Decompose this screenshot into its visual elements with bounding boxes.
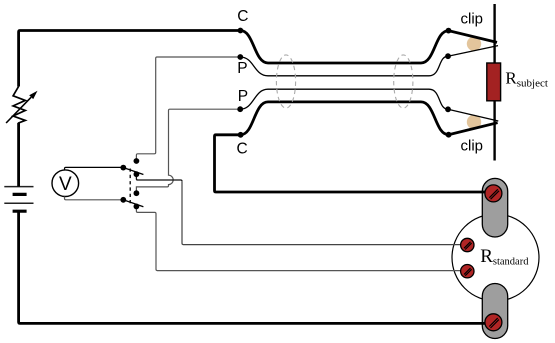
svg-text:clip: clip [461, 138, 484, 155]
svg-text:P: P [238, 88, 248, 105]
svg-text:V: V [59, 174, 72, 195]
svg-text:C: C [237, 8, 248, 25]
svg-text:P: P [237, 60, 247, 77]
svg-text:clip: clip [461, 11, 484, 28]
svg-text:C: C [237, 141, 248, 158]
